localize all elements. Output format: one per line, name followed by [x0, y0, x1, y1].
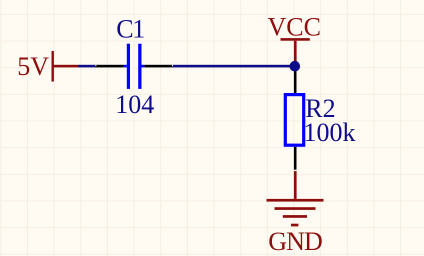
- svg-text:100k: 100k: [304, 118, 356, 147]
- svg-text:5V: 5V: [17, 52, 49, 81]
- svg-text:104: 104: [115, 90, 154, 119]
- svg-text:GND: GND: [268, 227, 322, 256]
- svg-text:C1: C1: [116, 14, 144, 43]
- svg-text:VCC: VCC: [268, 12, 321, 41]
